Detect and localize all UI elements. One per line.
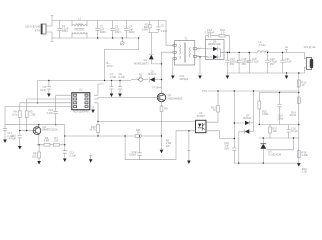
resistor R9 sense <box>160 102 172 154</box>
svg-text:47uF: 47uF <box>110 75 116 79</box>
svg-text:0.5W: 0.5W <box>142 28 149 32</box>
ground IC <box>91 107 95 114</box>
shunt regulator U3 TL431 <box>260 137 294 163</box>
svg-text:1W: 1W <box>166 144 170 148</box>
rectifier D6 <box>206 40 225 60</box>
capacitor C11 <box>38 124 76 162</box>
resistor R5 <box>25 99 35 131</box>
resistor R12 opto feed <box>206 90 219 122</box>
svg-text:NDD04N60Z: NDD04N60Z <box>168 97 183 101</box>
output rail <box>224 52 257 54</box>
svg-text:400V: 400V <box>115 30 121 34</box>
node B+ bus junction <box>104 61 113 81</box>
resistor R13 <box>297 80 306 87</box>
svg-text:0.068uF: 0.068uF <box>205 30 215 34</box>
output return rail <box>227 67 306 73</box>
capacitor C19b output <box>247 52 259 73</box>
svg-text:D1: D1 <box>144 58 148 62</box>
svg-text:150: 150 <box>54 138 59 142</box>
resistor R7 <box>89 156 93 163</box>
svg-text:Q1: Q1 <box>168 93 172 97</box>
wires IC left pins <box>5 95 72 106</box>
wire IC fb <box>94 103 196 122</box>
capacitor C10 <box>9 130 22 150</box>
svg-text:U1: U1 <box>79 88 83 92</box>
svg-text:MURS160T3: MURS160T3 <box>134 62 150 66</box>
diode D2 <box>148 69 162 82</box>
testpoint Vo <box>285 45 289 52</box>
wire primary gnd rail <box>125 159 176 161</box>
svg-text:400V: 400V <box>62 29 68 33</box>
svg-text:10mH: 10mH <box>76 22 83 26</box>
svg-text:5.6R: 5.6R <box>44 138 50 142</box>
feedback upper wire <box>259 92 299 94</box>
svg-text:1.0: 1.0 <box>221 30 225 34</box>
connector J2 output <box>304 45 316 69</box>
wire clamp bottom <box>148 33 158 54</box>
svg-text:400V: 400V <box>100 30 106 34</box>
svg-text:14.7k: 14.7k <box>89 128 96 132</box>
svg-text:MBR20100: MBR20100 <box>208 42 222 46</box>
svg-text:12V @ 4A: 12V @ 4A <box>304 45 316 49</box>
svg-text:BAS21: BAS21 <box>243 116 252 120</box>
svg-text:100p: 100p <box>277 116 283 120</box>
ground secondary arrow <box>198 56 202 79</box>
svg-text:0.1uF: 0.1uF <box>118 75 125 79</box>
resistor R8 <box>32 144 41 164</box>
resistor R2 <box>131 72 148 81</box>
choke L1 <box>72 17 87 38</box>
ground secondary output <box>285 72 289 79</box>
capacitor C1 <box>57 21 69 39</box>
svg-text:25V: 25V <box>242 62 247 66</box>
capacitor C14 <box>225 52 239 73</box>
svg-text:6.2k: 6.2k <box>12 112 18 116</box>
svg-text:0.1uF: 0.1uF <box>7 134 14 138</box>
svg-text:3.3nF: 3.3nF <box>46 111 53 115</box>
mosfet Q1 <box>154 93 183 102</box>
capacitor C4 <box>124 21 135 39</box>
svg-text:10nF: 10nF <box>40 88 46 92</box>
svg-text:0.1uF: 0.1uF <box>69 153 76 157</box>
svg-text:25V: 25V <box>230 62 235 66</box>
capacitor C7 vcc bulk <box>109 72 116 97</box>
svg-text:100pF: 100pF <box>129 153 137 157</box>
resistor R14 <box>290 97 301 117</box>
svg-text:10k: 10k <box>272 129 277 133</box>
capacitor C15 <box>237 52 251 73</box>
svg-text:0.1uF: 0.1uF <box>291 129 298 133</box>
svg-text:50V: 50V <box>224 146 229 150</box>
svg-text:1.0k: 1.0k <box>302 170 308 174</box>
wire primary bottom to drain <box>162 52 173 93</box>
svg-text:4.7uH: 4.7uH <box>259 43 266 47</box>
wire opto emitter <box>176 130 196 132</box>
svg-text:2.49k: 2.49k <box>302 153 309 157</box>
capacitor C20 <box>287 125 299 139</box>
transformer T1 <box>173 37 201 65</box>
wire IC vcc <box>94 84 105 95</box>
capacitor C17 <box>280 52 292 73</box>
capacitor C9 <box>46 95 58 125</box>
svg-text:TP1: TP1 <box>152 86 157 90</box>
wire top rail to transformer <box>166 21 173 46</box>
svg-text:2.2nF: 2.2nF <box>161 29 168 33</box>
earth ground chassis <box>120 37 124 45</box>
capacitor C12 <box>129 135 142 159</box>
node junction dots input rail <box>97 37 98 38</box>
sense rail secondary <box>208 90 298 92</box>
secondary top wire <box>197 48 207 50</box>
svg-text:150: 150 <box>32 154 37 158</box>
svg-text:4.99k: 4.99k <box>262 112 269 116</box>
resistor R6 <box>44 136 60 146</box>
svg-text:NCP1200P60: NCP1200P60 <box>73 110 89 114</box>
capacitor C17 <box>3 125 14 143</box>
svg-text:MMBT2222A: MMBT2222A <box>43 127 58 131</box>
capacitor C2 <box>95 21 106 39</box>
IC U1 controller <box>72 88 90 114</box>
feedback sense wire <box>298 73 300 163</box>
wire top rail <box>52 20 166 22</box>
transistor Q2 <box>33 125 58 135</box>
svg-text:370V: 370V <box>107 64 113 68</box>
wire IC drv to gate <box>94 98 154 100</box>
feedback rail B <box>259 137 299 139</box>
capacitor C19 <box>277 92 283 125</box>
wire cs bus <box>65 135 162 137</box>
capacitor C16 <box>265 52 277 73</box>
wire Q2 emitter down <box>37 135 65 145</box>
capacitor C5 clamp <box>156 21 168 33</box>
svg-text:2200pF: 2200pF <box>180 77 189 81</box>
svg-text:0.1uF: 0.1uF <box>285 59 292 63</box>
diode D8 <box>239 90 254 163</box>
wire bottom rail <box>52 37 139 39</box>
capacitor C8 vcc <box>118 72 126 97</box>
resistor R17 <box>269 125 278 139</box>
wire startup <box>105 38 139 81</box>
svg-text:1.2M: 1.2M <box>29 112 35 116</box>
connector J1 AC input <box>25 24 46 34</box>
wire opto led cathode <box>206 131 234 139</box>
capacitor C6 vcc <box>40 80 51 97</box>
resistor R11 gate <box>135 128 141 137</box>
feedback rail A <box>259 124 299 126</box>
wire L input <box>46 16 53 27</box>
resistor R1 clamp <box>142 21 151 33</box>
wire N input <box>46 32 53 42</box>
inductor L2 <box>257 40 269 53</box>
svg-text:BAV21: BAV21 <box>148 72 156 76</box>
wire Q2 collector bus <box>5 107 65 136</box>
svg-text:911-A-87146: 911-A-87146 <box>25 25 40 29</box>
optocoupler U2 <box>196 111 207 133</box>
drop to diode pair <box>234 91 244 123</box>
testpoint TP1 <box>152 86 161 90</box>
resistor R10 <box>89 122 99 137</box>
resistor R4 <box>12 103 21 131</box>
capacitor C3 <box>110 21 121 39</box>
snubber C13 R16 <box>205 28 230 53</box>
ground opto return <box>187 131 191 164</box>
diode D1 clamp <box>134 54 162 65</box>
svg-text:C5: C5 <box>161 24 165 28</box>
svg-text:400V: 400V <box>129 30 135 34</box>
resistor R18 <box>297 150 308 157</box>
svg-text:TL431ACM: TL431ACM <box>268 152 281 156</box>
diode D7 <box>243 113 253 125</box>
resistor R15 <box>258 93 269 125</box>
wire opto emitter drop <box>175 131 177 160</box>
ground aux transformer <box>171 59 189 81</box>
wire vcc rail <box>38 80 132 82</box>
svg-text:25V: 25V <box>270 62 275 66</box>
svg-text:0.1uF: 0.1uF <box>252 59 259 63</box>
svg-text:R9: R9 <box>164 106 168 110</box>
svg-text:49.9k: 49.9k <box>290 113 297 117</box>
capacitor C18 <box>224 122 236 163</box>
secondary bottom wire <box>197 55 207 58</box>
svg-text:KTN: KTN <box>35 28 40 32</box>
secondary gnd rail <box>234 162 298 164</box>
svg-text:TP4: TP4 <box>202 89 207 93</box>
svg-text:PC817: PC817 <box>197 114 205 118</box>
